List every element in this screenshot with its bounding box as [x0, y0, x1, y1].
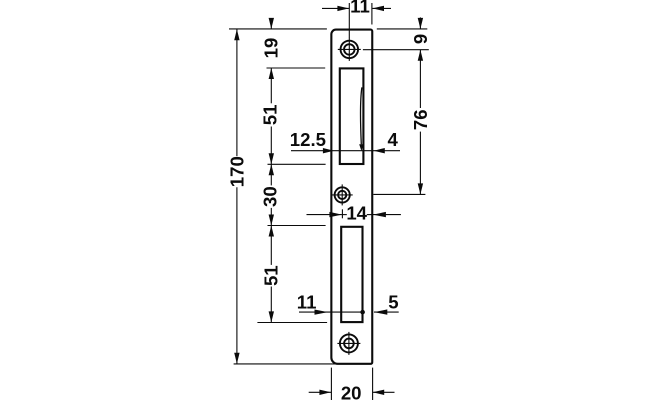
- svg-text:9: 9: [410, 34, 431, 44]
- arrowhead 170 up: [234, 29, 239, 40]
- svg-text:4: 4: [388, 129, 399, 150]
- extension line top hole center right: [363, 49, 429, 51]
- arrowhead 30 up: [269, 164, 274, 175]
- arrowhead 51 up: [269, 68, 274, 79]
- extension line upper slot top: [267, 67, 326, 69]
- dimension 12.5 and 4 line: [291, 150, 400, 152]
- extension line lower slot top: [268, 225, 326, 227]
- dimension 11 top line: [322, 7, 349, 9]
- arrowhead 4 left: [374, 148, 385, 153]
- extension line plate right edge vertical top: [371, 3, 373, 25]
- extension line top edge left: [229, 28, 327, 30]
- dimension dot 11-5 junction: [360, 310, 365, 315]
- arrowhead 76 down: [418, 183, 423, 194]
- svg-text:19: 19: [261, 38, 282, 59]
- arrowhead 20 right: [373, 390, 385, 395]
- screw hole top: [338, 38, 361, 61]
- arrowhead 11 lower right-pointing: [315, 310, 328, 315]
- latch slot lower: [341, 227, 362, 322]
- extension line top hole center vertical: [348, 3, 350, 38]
- arrowhead 12.5 right: [323, 148, 334, 153]
- strike plate outline: [331, 30, 372, 364]
- svg-text:51: 51: [260, 265, 281, 286]
- latch slot upper: [340, 68, 364, 164]
- svg-text:14: 14: [346, 202, 367, 223]
- svg-text:30: 30: [260, 186, 281, 207]
- extension line middle hole center right: [373, 193, 425, 195]
- extension line plate bottom left: [234, 363, 335, 365]
- extension line top edge right: [377, 28, 428, 30]
- latch lip curve line: [361, 87, 362, 144]
- arrowhead 170 down: [234, 353, 239, 364]
- svg-text:12.5: 12.5: [290, 129, 326, 150]
- screw hole bottom: [337, 332, 360, 355]
- extension line upper slot bottom: [268, 163, 326, 165]
- arrowhead 20 left: [319, 390, 331, 395]
- arrowhead 9-76 shared up: [418, 50, 423, 61]
- svg-text:11: 11: [350, 0, 370, 16]
- arrowhead 51 down: [269, 153, 274, 164]
- dimension 14 line: [307, 214, 342, 216]
- screw hole middle: [332, 184, 353, 205]
- extension line plate right edge bottom: [372, 368, 374, 400]
- extension line plate left edge bottom: [330, 368, 332, 400]
- dimension 170 line: [236, 29, 238, 156]
- arrowhead 4 latch small down: [359, 144, 363, 151]
- dimension 11 and 5 lower line: [299, 311, 363, 313]
- arrowhead 30 down: [269, 215, 274, 226]
- extension line middle hole tick: [341, 209, 343, 218]
- svg-text:11: 11: [297, 291, 317, 312]
- arrowhead 19 down outside: [269, 18, 274, 29]
- arrowhead 9 top: [418, 18, 423, 29]
- arrowhead 51 lower down: [269, 311, 274, 322]
- svg-text:170: 170: [227, 156, 248, 187]
- arrowhead 11 top right: [373, 6, 385, 11]
- arrowhead 11 top left: [337, 6, 349, 11]
- svg-text:5: 5: [388, 291, 398, 312]
- arrowhead 51 lower up: [269, 226, 274, 237]
- arrowhead 5 left: [374, 309, 387, 314]
- svg-text:20: 20: [341, 383, 362, 401]
- svg-text:76: 76: [410, 109, 431, 130]
- dimension 9 and 76 line: [419, 17, 421, 29]
- svg-text:51: 51: [260, 105, 281, 126]
- dimension 20 line: [309, 391, 331, 393]
- arrowhead 14 right: [373, 212, 386, 217]
- dimension chain 19 51 30 51 line: [270, 18, 272, 29]
- arrowhead 14 left: [329, 212, 342, 217]
- extension line lower slot bottom: [257, 322, 327, 324]
